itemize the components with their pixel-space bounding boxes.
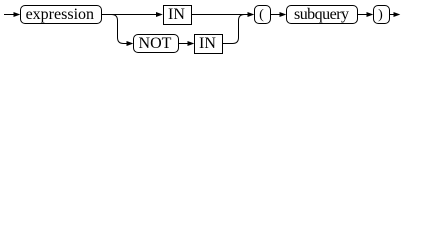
arrow before subquery [280,12,287,17]
arrow before IN top [156,12,163,17]
svg-text:IN: IN [199,35,216,52]
svg-text:): ) [378,7,383,22]
svg-text:subquery: subquery [294,6,349,23]
svg-text:IN: IN [168,6,185,23]
non-terminal IN top [164,6,192,25]
wire NOT to IN bottom [179,43,189,45]
wire subquery to ) [358,14,368,16]
arrow before NOT [127,41,134,46]
svg-text:(: ( [259,7,264,22]
terminal ( [255,6,271,24]
wire ( to subquery [271,14,281,16]
terminal NOT [134,35,179,53]
terminal expression [21,6,102,24]
arrow before close paren [367,12,374,17]
arrow before IN bottom [188,41,195,46]
terminal subquery [287,6,358,24]
wire expression to IN arrow [102,14,157,16]
wire ) to end [390,14,395,16]
svg-text:NOT: NOT [139,35,172,52]
arrow before open paren [248,12,255,17]
wire IN top to merge [192,14,248,16]
terminal ) [374,6,390,24]
wire branch down to NOT row [112,15,128,44]
svg-text:expression: expression [26,6,94,23]
wire start [4,14,14,16]
non-terminal IN bottom [195,35,223,54]
end arrow [394,12,401,17]
wire IN bottom up to merge with main [223,15,245,44]
start arrow [14,12,21,17]
